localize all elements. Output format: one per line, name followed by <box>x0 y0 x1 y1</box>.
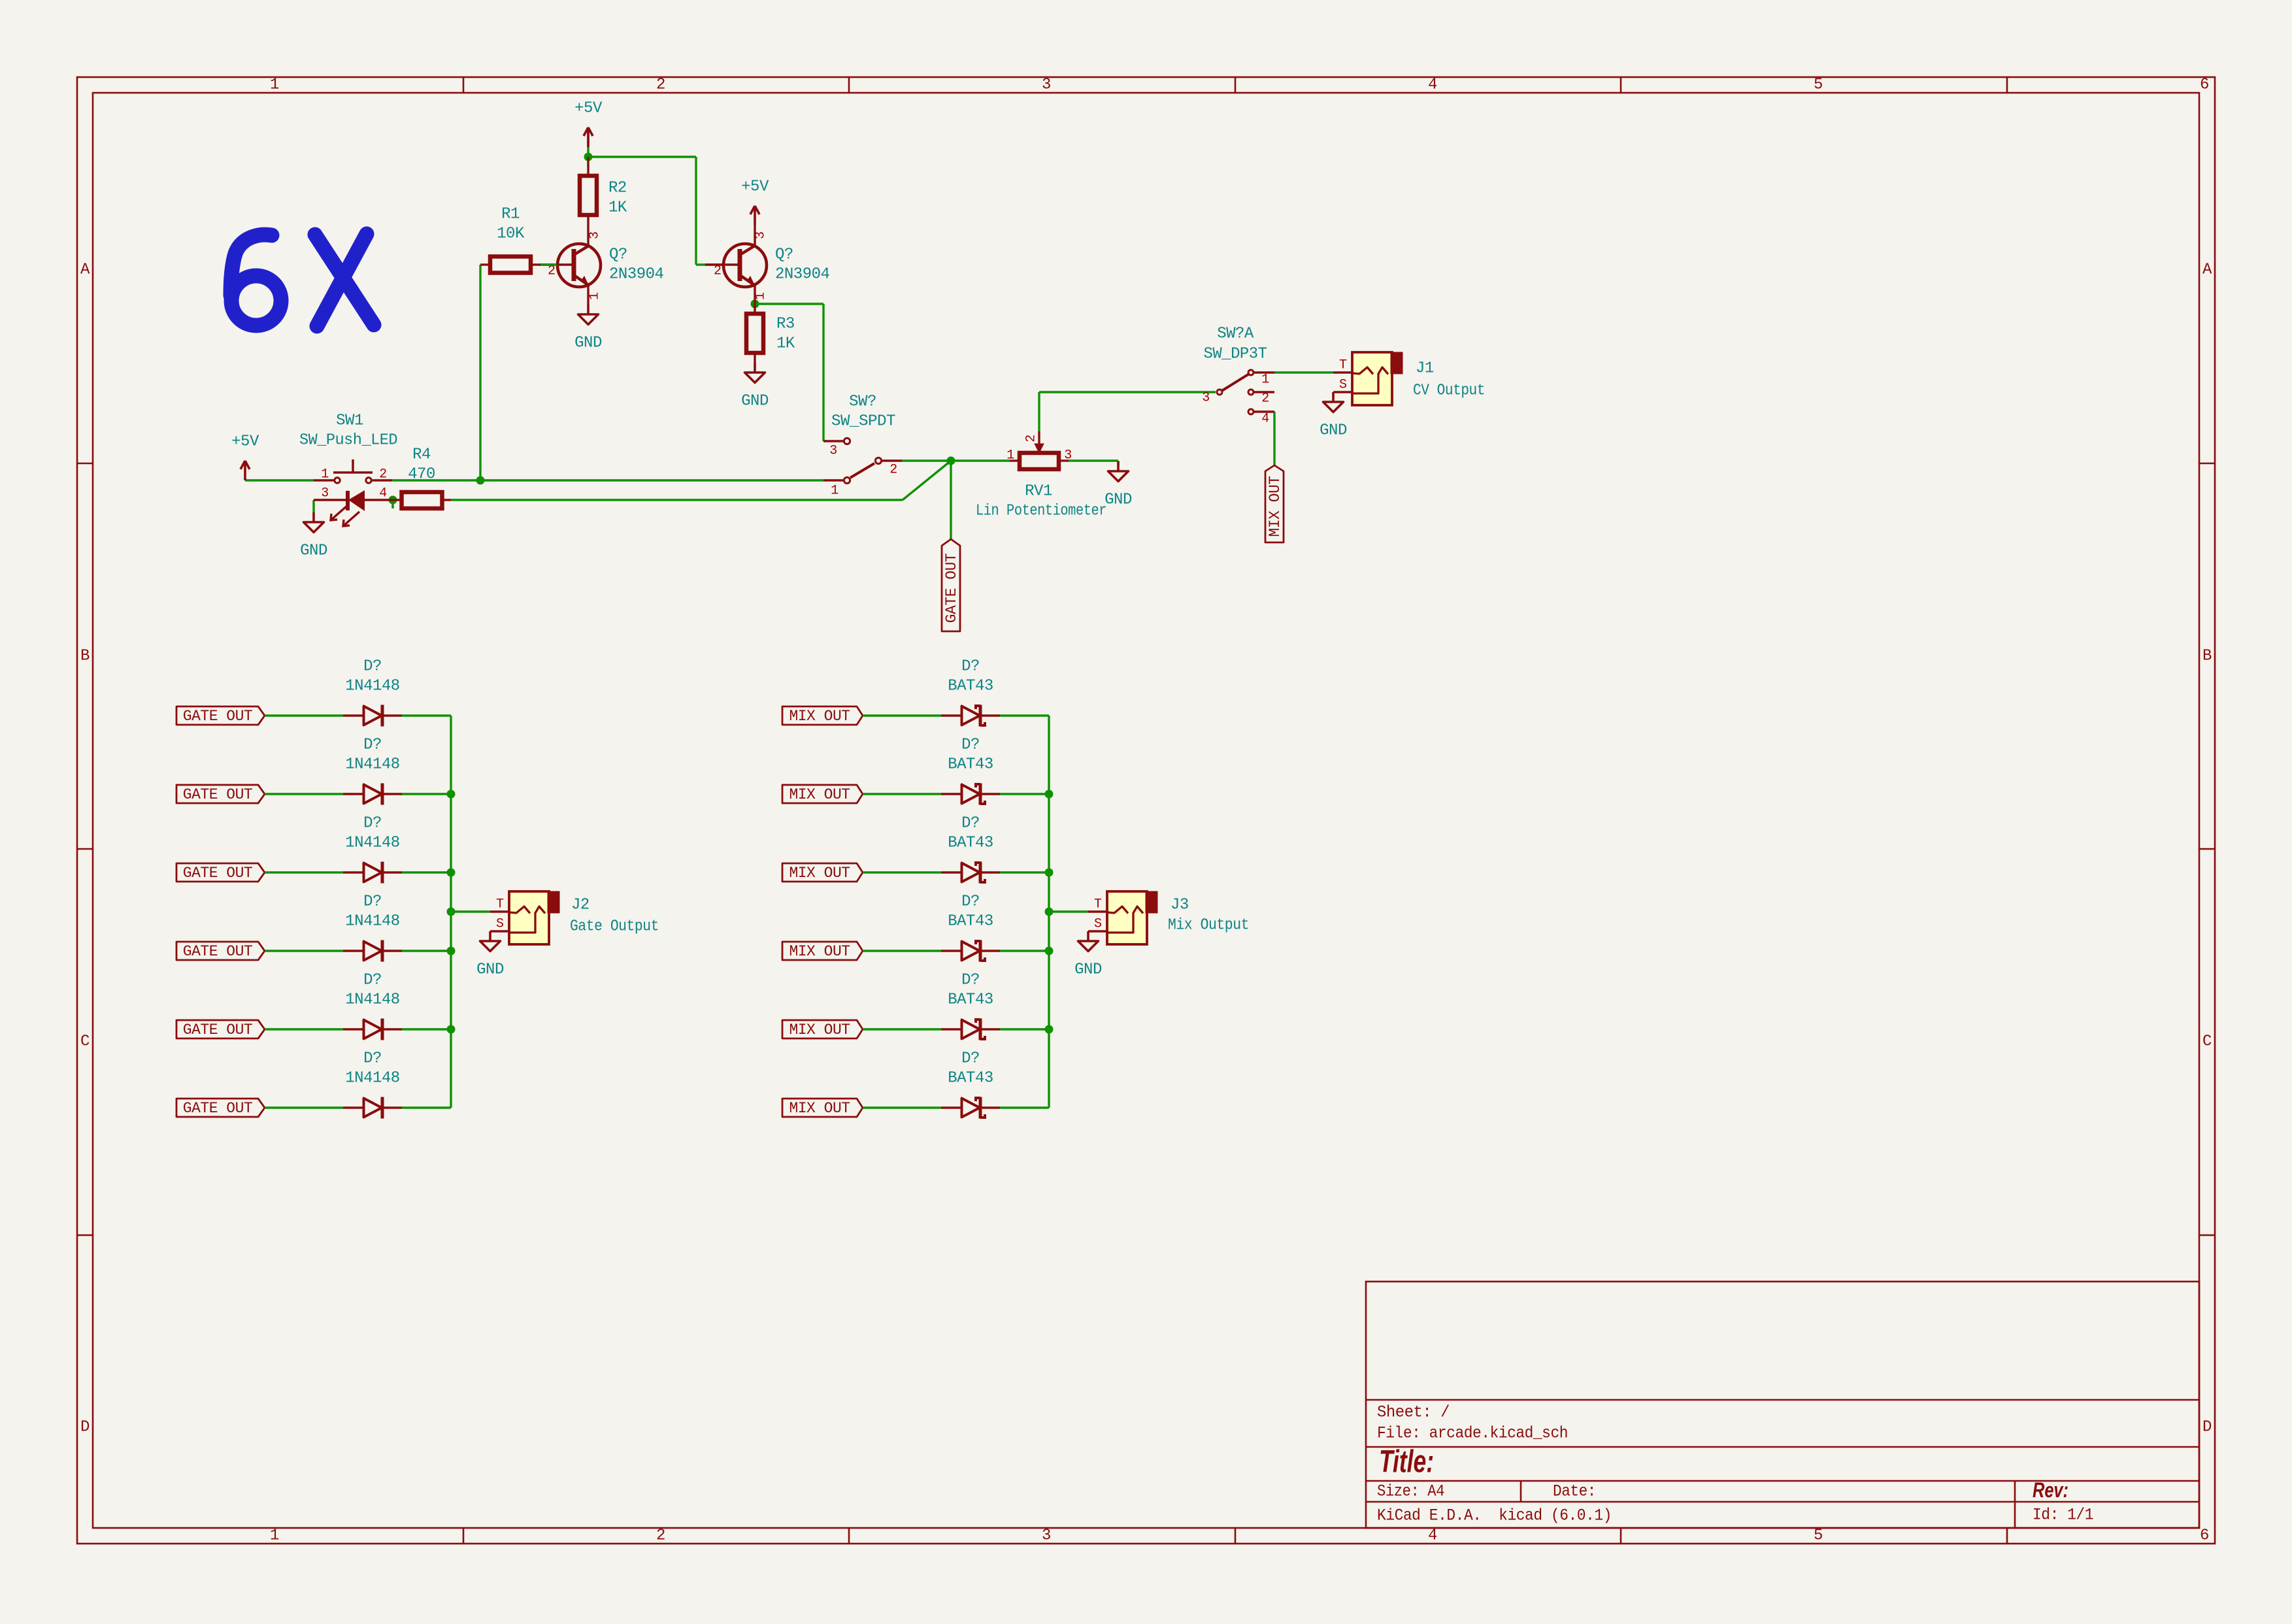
svg-text:MIX OUT: MIX OUT <box>1267 476 1284 537</box>
svg-text:4: 4 <box>1428 1527 1437 1545</box>
svg-text:GATE OUT: GATE OUT <box>943 554 960 623</box>
svg-text:2: 2 <box>1261 391 1269 406</box>
svg-text:C: C <box>80 1033 90 1051</box>
svg-text:1: 1 <box>831 484 839 499</box>
svg-text:KiCad E.D.A. kicad (6.0.1): KiCad E.D.A. kicad (6.0.1) <box>1377 1506 1612 1525</box>
svg-text:1: 1 <box>270 76 279 94</box>
svg-text:B: B <box>80 648 90 665</box>
svg-text:CV Output: CV Output <box>1413 382 1485 400</box>
svg-text:Rev:: Rev: <box>2033 1478 2068 1502</box>
svg-text:3: 3 <box>829 444 837 459</box>
svg-text:R2: R2 <box>608 180 627 197</box>
svg-text:Sheet: /: Sheet: / <box>1377 1403 1450 1422</box>
svg-text:6: 6 <box>2200 76 2209 94</box>
svg-text:1K: 1K <box>608 199 627 217</box>
svg-text:J3: J3 <box>1171 897 1189 914</box>
svg-text:SW?: SW? <box>849 393 876 411</box>
svg-text:A: A <box>2202 261 2212 279</box>
svg-text:R1: R1 <box>501 206 520 224</box>
svg-text:2: 2 <box>656 76 665 94</box>
svg-text:SW?A: SW?A <box>1217 325 1254 343</box>
svg-text:2: 2 <box>379 467 387 482</box>
svg-text:470: 470 <box>408 466 435 484</box>
svg-text:2: 2 <box>1024 435 1039 442</box>
svg-text:C: C <box>2202 1033 2212 1051</box>
svg-text:D: D <box>2202 1419 2212 1436</box>
svg-text:4: 4 <box>1428 76 1437 94</box>
svg-text:Gate Output: Gate Output <box>570 918 659 936</box>
svg-text:3: 3 <box>321 486 329 501</box>
svg-text:File: arcade.kicad_sch: File: arcade.kicad_sch <box>1377 1424 1568 1443</box>
svg-text:SW1: SW1 <box>336 412 363 430</box>
svg-text:1K: 1K <box>776 335 795 353</box>
svg-text:Mix Output: Mix Output <box>1168 917 1249 935</box>
svg-text:J2: J2 <box>571 897 590 914</box>
svg-text:2: 2 <box>656 1527 665 1545</box>
svg-text:4: 4 <box>1261 412 1269 427</box>
svg-text:RV1: RV1 <box>1025 483 1052 501</box>
svg-text:SW_Push_LED: SW_Push_LED <box>299 432 397 450</box>
svg-text:3: 3 <box>1202 391 1210 406</box>
svg-text:4: 4 <box>379 486 387 501</box>
svg-text:R3: R3 <box>776 316 795 333</box>
svg-text:Lin Potentiometer: Lin Potentiometer <box>976 503 1106 520</box>
svg-text:B: B <box>2202 648 2212 665</box>
svg-text:1: 1 <box>321 467 329 482</box>
svg-text:Date:: Date: <box>1553 1482 1596 1501</box>
svg-text:6: 6 <box>2200 1527 2209 1545</box>
svg-text:SW_DP3T: SW_DP3T <box>1204 346 1267 363</box>
svg-text:SW_SPDT: SW_SPDT <box>831 413 895 431</box>
svg-text:A: A <box>80 261 90 279</box>
svg-text:D: D <box>80 1419 90 1436</box>
svg-text:J1: J1 <box>1416 360 1434 378</box>
svg-text:Id: 1/1: Id: 1/1 <box>2033 1506 2093 1525</box>
svg-text:10K: 10K <box>497 225 525 243</box>
svg-text:3: 3 <box>1064 448 1072 463</box>
svg-text:Title:: Title: <box>1379 1445 1434 1480</box>
svg-text:5: 5 <box>1814 76 1823 94</box>
svg-text:1: 1 <box>1261 373 1269 388</box>
svg-text:5: 5 <box>1814 1527 1823 1545</box>
svg-text:3: 3 <box>1042 76 1051 94</box>
svg-text:2: 2 <box>889 463 897 478</box>
svg-text:1: 1 <box>270 1527 279 1545</box>
svg-text:1: 1 <box>1006 448 1014 463</box>
svg-text:3: 3 <box>1042 1527 1051 1545</box>
svg-text:R4: R4 <box>412 446 431 464</box>
svg-text:Size: A4: Size: A4 <box>1377 1482 1444 1501</box>
